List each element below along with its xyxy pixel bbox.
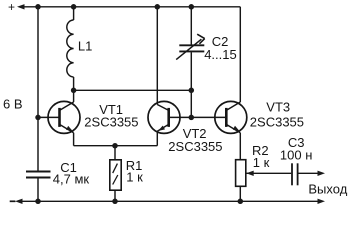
svg-text:2SC3355: 2SC3355	[250, 115, 304, 130]
svg-text:6 В: 6 В	[3, 97, 23, 112]
svg-text:L1: L1	[78, 38, 92, 53]
svg-text:2SC3355: 2SC3355	[168, 139, 222, 154]
svg-text:100 н: 100 н	[280, 147, 312, 162]
svg-text:1 к: 1 к	[126, 170, 143, 185]
svg-text:VT3: VT3	[266, 100, 290, 115]
svg-text:1 к: 1 к	[253, 155, 270, 170]
svg-text:4,7 мк: 4,7 мк	[53, 171, 90, 186]
svg-text:2SC3355: 2SC3355	[84, 115, 138, 130]
svg-text:4...15: 4...15	[204, 47, 237, 62]
svg-text:+: +	[8, 0, 15, 14]
svg-text:Выход: Выход	[308, 181, 347, 196]
